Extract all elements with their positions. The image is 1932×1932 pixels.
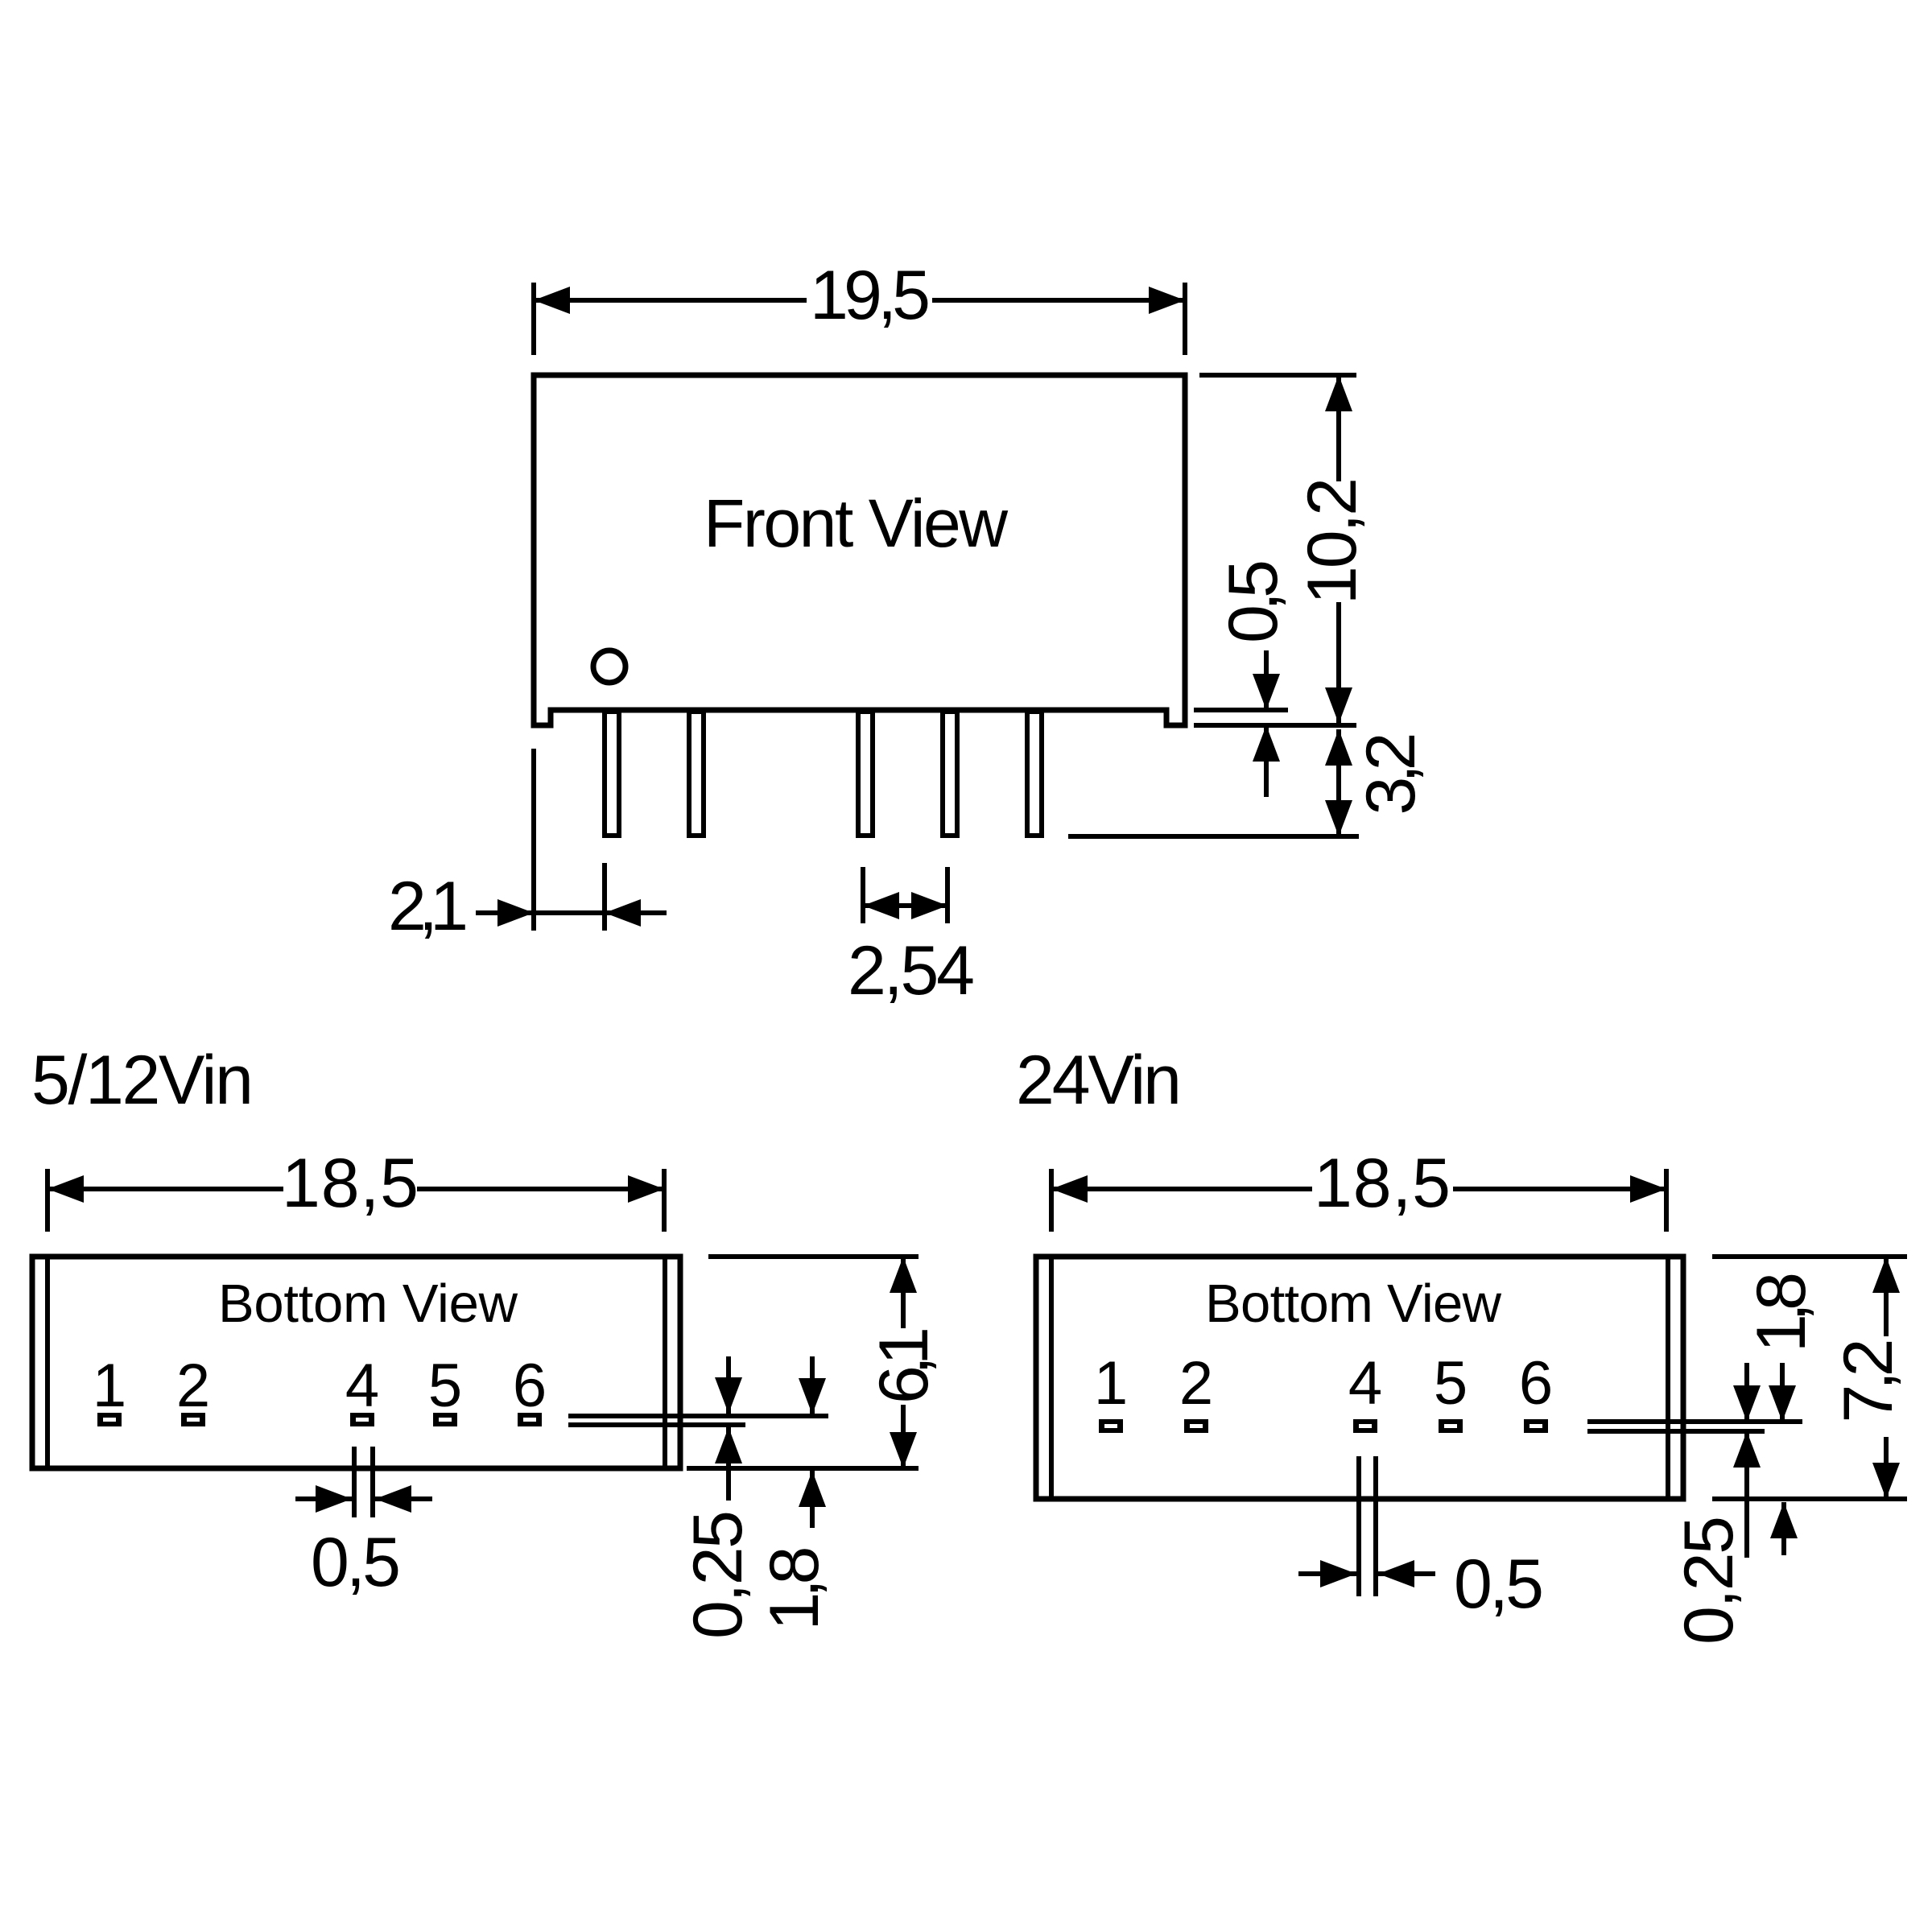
svg-text:Front View: Front View bbox=[704, 485, 1008, 561]
svg-text:6: 6 bbox=[1519, 1349, 1553, 1418]
svg-text:18,5: 18,5 bbox=[282, 1145, 419, 1222]
svg-text:0,5: 0,5 bbox=[1454, 1546, 1544, 1623]
svg-text:1,8: 1,8 bbox=[1743, 1272, 1820, 1352]
svg-text:2,1: 2,1 bbox=[388, 868, 469, 945]
svg-text:1: 1 bbox=[93, 1352, 126, 1420]
svg-text:6,1: 6,1 bbox=[865, 1327, 943, 1404]
svg-text:2: 2 bbox=[176, 1352, 210, 1420]
svg-text:5/12Vin: 5/12Vin bbox=[31, 1042, 254, 1119]
svg-text:0,5: 0,5 bbox=[311, 1524, 401, 1601]
svg-text:19,5: 19,5 bbox=[810, 257, 931, 334]
svg-text:10,2: 10,2 bbox=[1294, 477, 1371, 605]
svg-text:Bottom View: Bottom View bbox=[218, 1274, 518, 1334]
svg-text:5: 5 bbox=[428, 1352, 462, 1420]
svg-text:7,2: 7,2 bbox=[1830, 1339, 1907, 1423]
svg-text:24Vin: 24Vin bbox=[1016, 1042, 1182, 1119]
svg-text:2,54: 2,54 bbox=[848, 932, 975, 1009]
svg-text:1,8: 1,8 bbox=[756, 1546, 833, 1631]
svg-text:4: 4 bbox=[345, 1352, 379, 1420]
svg-text:1: 1 bbox=[1094, 1349, 1128, 1418]
svg-text:5: 5 bbox=[1434, 1349, 1468, 1418]
svg-text:3,2: 3,2 bbox=[1352, 733, 1430, 815]
svg-text:Bottom View: Bottom View bbox=[1205, 1274, 1502, 1334]
svg-text:0,25: 0,25 bbox=[679, 1510, 757, 1639]
svg-text:4: 4 bbox=[1348, 1349, 1382, 1418]
svg-text:6: 6 bbox=[513, 1352, 547, 1420]
svg-text:2: 2 bbox=[1179, 1349, 1213, 1418]
svg-text:0,25: 0,25 bbox=[1670, 1516, 1748, 1645]
svg-text:0,5: 0,5 bbox=[1215, 559, 1292, 643]
svg-text:18,5: 18,5 bbox=[1314, 1145, 1451, 1222]
